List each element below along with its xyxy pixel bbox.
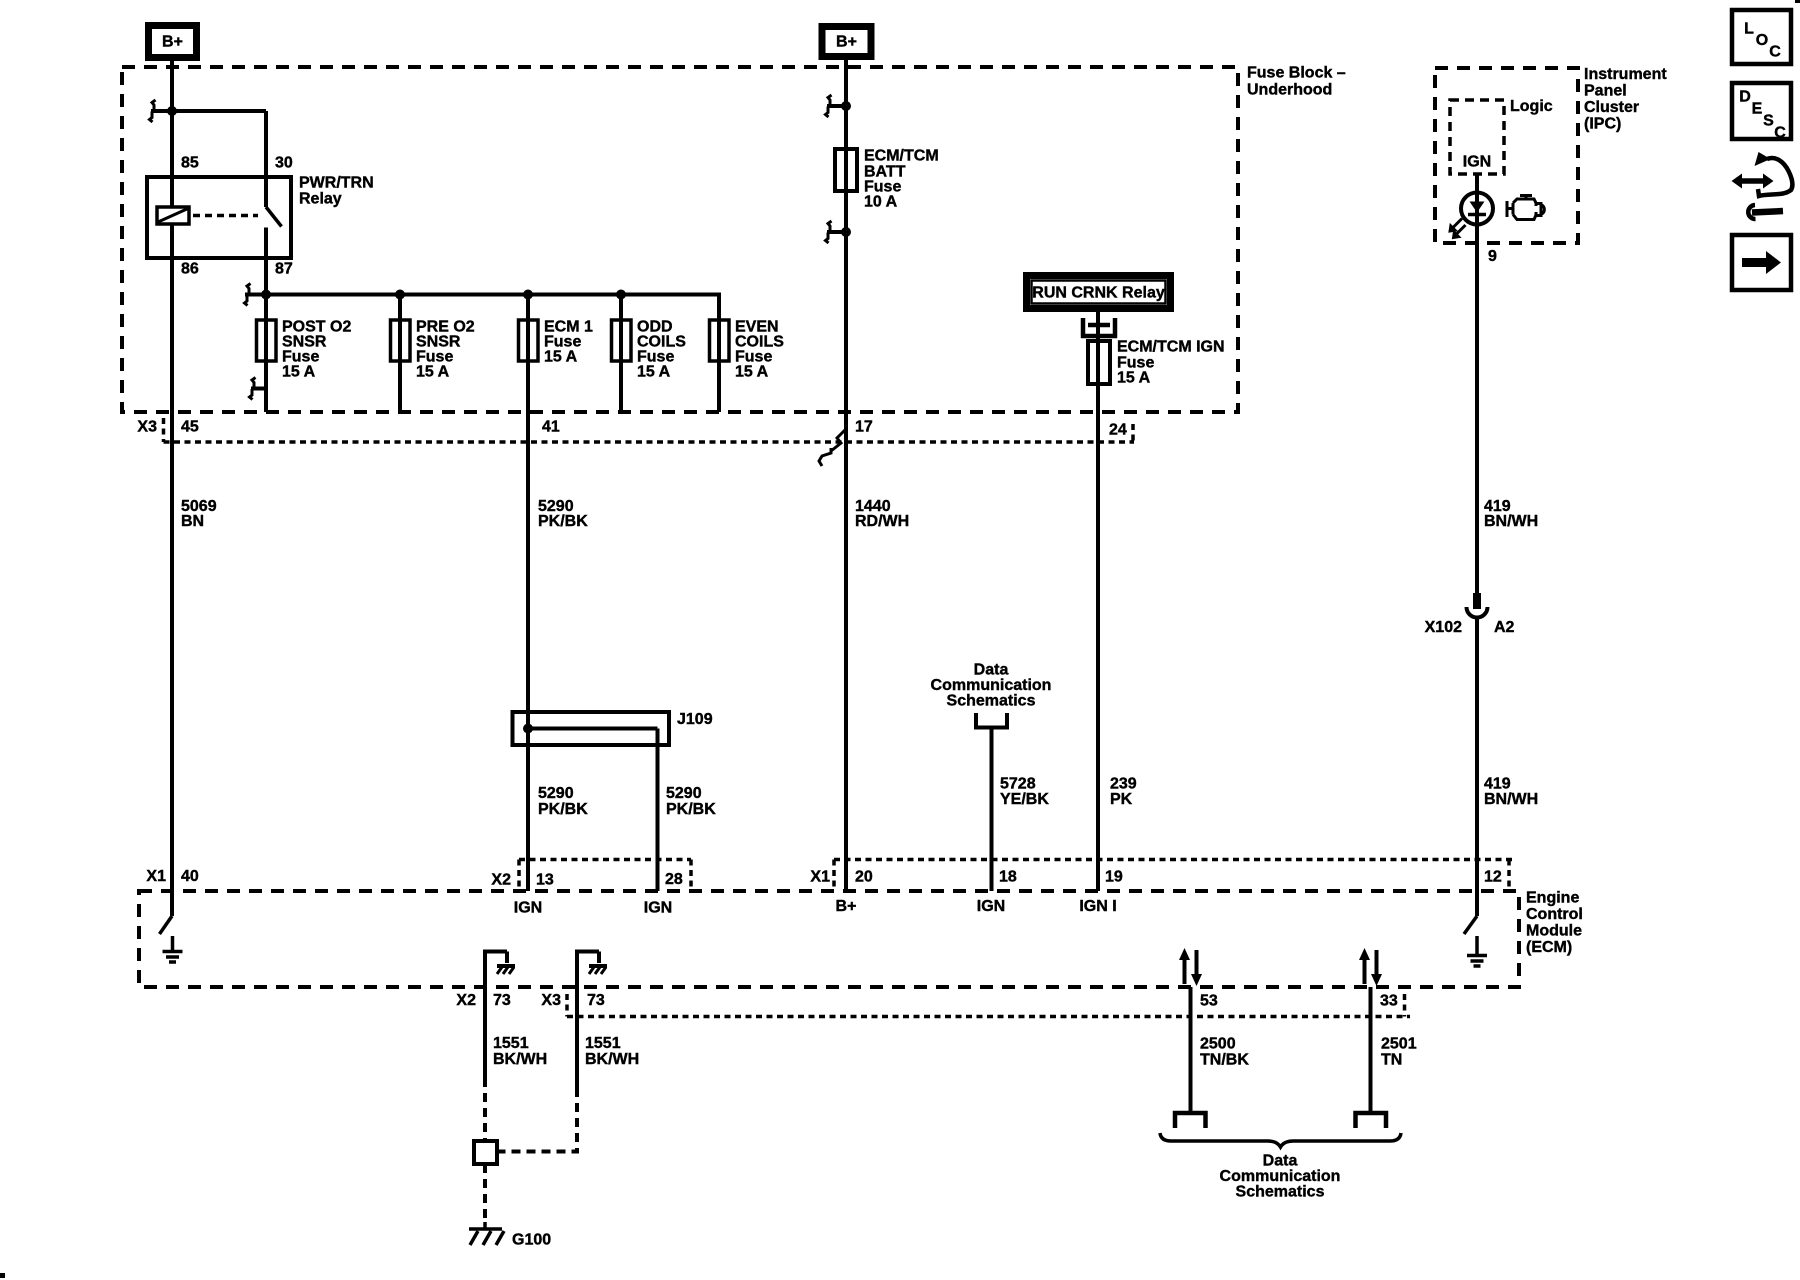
fuse holder cup symbol xyxy=(1081,318,1117,338)
svg-text:S: S xyxy=(1763,113,1774,130)
svg-text:IGN: IGN xyxy=(644,900,672,917)
svg-text:Control: Control xyxy=(1526,906,1583,923)
svg-text:IGN I: IGN I xyxy=(1079,898,1116,915)
svg-text:Schematics: Schematics xyxy=(1236,1184,1325,1201)
svg-text:45: 45 xyxy=(181,419,199,436)
svg-text:IGN: IGN xyxy=(514,900,542,917)
svg-text:BK/WH: BK/WH xyxy=(585,1051,639,1068)
svg-text:1551: 1551 xyxy=(493,1035,529,1052)
svg-text:C: C xyxy=(1769,44,1781,61)
icon box LOC xyxy=(1732,10,1791,64)
svg-text:G100: G100 xyxy=(512,1232,551,1249)
svg-text:24: 24 xyxy=(1109,422,1127,439)
wire logic to LED and down to X102 xyxy=(1475,174,1479,595)
svg-text:J109: J109 xyxy=(677,711,713,728)
fuse PRE O2 SNSR 15A xyxy=(391,320,411,361)
label Fuse Block - Underhood xyxy=(1247,65,1346,99)
PWR/TRN relay box xyxy=(147,177,291,258)
callout Data Communication Schematics (top) xyxy=(931,662,1052,710)
wire label 5728 YE/BK xyxy=(1000,776,1049,809)
Engine Control Module dashed box xyxy=(139,891,1519,987)
svg-text:D: D xyxy=(1739,89,1751,106)
svg-text:Panel: Panel xyxy=(1584,83,1627,100)
svg-text:Schematics: Schematics xyxy=(947,693,1036,710)
relay actuator dashed link xyxy=(193,214,258,218)
off-page terminator (2501) xyxy=(1356,1113,1387,1128)
junction node bus/ODD COILS xyxy=(616,290,626,300)
wire stub RUN CRNK relay to fuse holder xyxy=(1096,309,1100,891)
svg-text:53: 53 xyxy=(1200,993,1218,1010)
svg-text:L: L xyxy=(1744,21,1754,38)
wire label 1551 BK/WH (right) xyxy=(585,1035,639,1068)
wire dashed splice to G100 xyxy=(483,1164,487,1222)
wire label 2500 TN/BK xyxy=(1200,1036,1249,1069)
svg-text:Communication: Communication xyxy=(931,677,1052,694)
svg-text:X2: X2 xyxy=(491,872,511,889)
svg-text:15 A: 15 A xyxy=(735,364,769,381)
wire pin 30 down into relay xyxy=(264,111,268,207)
off-page terminator (2500) xyxy=(1175,1113,1206,1128)
label PRE O2 SNSR Fuse 15 A xyxy=(416,319,475,381)
in-line connector X102 pin A2 xyxy=(1467,593,1488,618)
svg-text:10 A: 10 A xyxy=(864,194,898,211)
Logic dashed box xyxy=(1450,100,1504,174)
fuse ODD COILS 15A xyxy=(612,320,632,361)
svg-text:15 A: 15 A xyxy=(1117,370,1151,387)
svg-text:PK/BK: PK/BK xyxy=(538,801,588,818)
svg-text:TN/BK: TN/BK xyxy=(1200,1052,1249,1069)
svg-text:12: 12 xyxy=(1484,869,1502,886)
svg-text:C: C xyxy=(1774,125,1786,142)
svg-text:41: 41 xyxy=(542,419,560,436)
svg-text:Engine: Engine xyxy=(1526,890,1579,907)
svg-text:ECM/TCM: ECM/TCM xyxy=(864,148,939,165)
fuse ECM/TCM BATT 10A xyxy=(835,149,857,191)
svg-text:9: 9 xyxy=(1488,248,1497,265)
fuse POST O2 SNSR 15A xyxy=(257,320,277,361)
fuse bus from relay pin 87 xyxy=(245,293,719,297)
svg-text:85: 85 xyxy=(181,155,199,172)
svg-text:33: 33 xyxy=(1380,993,1398,1010)
svg-text:419: 419 xyxy=(1484,776,1511,793)
ground symbol at pin 12 xyxy=(1467,956,1487,967)
svg-text:(ECM): (ECM) xyxy=(1526,939,1572,956)
svg-text:13: 13 xyxy=(536,872,554,889)
svg-text:86: 86 xyxy=(181,261,199,278)
fuse ECM/TCM IGN 15A xyxy=(1088,341,1110,384)
svg-text:Cluster: Cluster xyxy=(1584,99,1639,116)
svg-text:IGN: IGN xyxy=(1463,154,1491,171)
svg-text:TN: TN xyxy=(1381,1052,1402,1069)
wire bus to POST O2 fuse xyxy=(264,295,268,413)
svg-text:40: 40 xyxy=(181,868,199,885)
svg-text:RUN CRNK Relay: RUN CRNK Relay xyxy=(1032,285,1165,302)
junction node below BATT fuse xyxy=(841,227,851,237)
svg-text:5290: 5290 xyxy=(538,785,574,802)
RUN CRNK Relay label box xyxy=(1027,276,1171,309)
splice J109 box xyxy=(513,712,670,745)
svg-text:X102: X102 xyxy=(1425,619,1462,636)
svg-text:5728: 5728 xyxy=(1000,776,1036,793)
label ODD COILS Fuse 15 A xyxy=(637,319,686,381)
svg-text:O: O xyxy=(1756,32,1768,49)
ECM internal up-down arrows (pin 53) xyxy=(1179,948,1202,986)
ground symbol at pin 40 xyxy=(163,952,183,963)
svg-text:X2: X2 xyxy=(456,992,476,1009)
wire 2500 pin 53 xyxy=(1189,987,1193,1113)
wire 1551 left solid xyxy=(483,987,487,1078)
icon box go-to arrow xyxy=(1732,235,1791,290)
svg-text:BK/WH: BK/WH xyxy=(493,1051,547,1068)
svg-text:BN/WH: BN/WH xyxy=(1484,791,1538,808)
wire label 5290 PK/BK (upper) xyxy=(538,498,588,530)
svg-text:73: 73 xyxy=(493,992,511,1009)
connector row X1 (pins 20 18 19 12) xyxy=(834,860,1512,890)
label Instrument Panel Cluster (IPC) xyxy=(1584,66,1667,133)
clip tap above ECM/TCM BATT fuse xyxy=(827,104,846,108)
wire bus corner to EVEN COILS fuse xyxy=(717,293,721,413)
svg-text:15 A: 15 A xyxy=(282,364,316,381)
svg-text:Logic: Logic xyxy=(1510,98,1553,115)
svg-text:(IPC): (IPC) xyxy=(1584,116,1621,133)
svg-text:28: 28 xyxy=(665,871,683,888)
ECM internal ground clamp (X2-73) xyxy=(483,952,515,988)
svg-text:YE/BK: YE/BK xyxy=(1000,791,1049,808)
svg-text:PK/BK: PK/BK xyxy=(666,801,716,818)
svg-text:X3: X3 xyxy=(541,992,561,1009)
svg-text:PWR/TRN: PWR/TRN xyxy=(299,175,374,192)
fuse EVEN COILS 15A xyxy=(710,320,730,361)
icon box DESC xyxy=(1732,83,1791,142)
wire label 1440 RD/WH xyxy=(855,498,909,530)
svg-text:X1: X1 xyxy=(810,869,830,886)
wire bus to ECM 1 fuse xyxy=(526,295,530,892)
corner mark bottom left xyxy=(0,1273,5,1278)
svg-text:ECM/TCM IGN: ECM/TCM IGN xyxy=(1117,339,1225,356)
clip tap below BATT fuse xyxy=(827,230,846,234)
wire B+ center down xyxy=(844,56,848,891)
wire label 419 BN/WH (lower) xyxy=(1484,776,1538,809)
wire jumper at junction to pin 30 xyxy=(151,109,266,113)
callout bracket xyxy=(976,713,1007,728)
wire label 239 PK xyxy=(1110,776,1137,809)
ECM internal ground clamp (X3-73) xyxy=(575,952,607,988)
junction node xyxy=(167,106,177,116)
label ECM/TCM IGN Fuse 15 A xyxy=(1117,339,1225,387)
svg-text:18: 18 xyxy=(999,869,1017,886)
svg-text:2501: 2501 xyxy=(1381,1036,1417,1053)
svg-text:87: 87 xyxy=(275,261,293,278)
corner mark top right xyxy=(1795,0,1800,3)
wire label 2501 TN xyxy=(1381,1036,1417,1069)
junction node in J109 xyxy=(523,724,533,734)
ECM internal switch at pin 40 xyxy=(160,891,173,952)
wire 1551 right dashed to splice xyxy=(497,1088,577,1152)
wire label 5290 PK/BK (pin 13) xyxy=(538,785,588,818)
label POST O2 SNSR Fuse 15 A xyxy=(282,319,351,381)
wire bus to ODD COILS fuse xyxy=(619,295,623,413)
wire pin 87 lower contact down to bus xyxy=(264,228,268,295)
svg-text:Module: Module xyxy=(1526,923,1582,940)
clip tap below POST O2 fuse xyxy=(251,387,266,391)
Fuse Block - Underhood dashed box xyxy=(122,67,1238,412)
junction node bus/POST O2 xyxy=(261,290,271,300)
brace xyxy=(1160,1133,1401,1147)
wire 1551 right solid xyxy=(575,987,579,1088)
junction node above BATT fuse xyxy=(841,101,851,111)
wire 5728 from bracket to pin 18 xyxy=(990,728,994,892)
wire 1551 left dashed to splice xyxy=(483,1078,487,1141)
wire label 5290 PK/BK (pin 28) xyxy=(666,785,716,818)
svg-text:17: 17 xyxy=(855,419,873,436)
svg-text:Communication: Communication xyxy=(1220,1168,1341,1185)
engine icon xyxy=(1507,196,1544,220)
svg-text:20: 20 xyxy=(855,869,873,886)
svg-text:IGN: IGN xyxy=(977,898,1005,915)
ECM internal switch at pin 12 xyxy=(1464,891,1477,956)
junction node bus/ECM1 xyxy=(523,290,533,300)
svg-text:A2: A2 xyxy=(1494,619,1515,636)
svg-text:15 A: 15 A xyxy=(637,364,671,381)
label ECM 1 Fuse 15 A xyxy=(544,319,593,366)
wire B+ left down to relay pin 85 and coil xyxy=(170,58,174,207)
Instrument Panel Cluster dashed box xyxy=(1435,68,1578,243)
callout Data Communication Schematics (bottom) xyxy=(1220,1153,1341,1201)
wire branch in J109 to pin 28 xyxy=(528,727,658,731)
svg-text:Relay: Relay xyxy=(299,191,342,208)
wire label 419 BN/WH (upper) xyxy=(1484,498,1538,530)
label EVEN COILS Fuse 15 A xyxy=(735,319,784,381)
connector row X3 bottom (pins 73 53 33) xyxy=(567,994,1410,1017)
svg-text:PK: PK xyxy=(1110,791,1133,808)
svg-text:73: 73 xyxy=(587,992,605,1009)
svg-text:X1: X1 xyxy=(146,868,166,885)
svg-text:19: 19 xyxy=(1105,869,1123,886)
indicator LED symbol xyxy=(1450,193,1494,239)
svg-text:PK/BK: PK/BK xyxy=(538,513,588,530)
wire label 1551 BK/WH (left) xyxy=(493,1035,547,1068)
splice box xyxy=(474,1141,497,1164)
svg-text:E: E xyxy=(1752,101,1763,118)
svg-text:RD/WH: RD/WH xyxy=(855,513,909,530)
relay coil xyxy=(157,207,189,224)
svg-text:2500: 2500 xyxy=(1200,1036,1236,1053)
ECM internal up-down arrows (pin 33) xyxy=(1359,948,1382,986)
svg-text:Data: Data xyxy=(974,662,1009,679)
ground G100 chassis symbol xyxy=(469,1222,504,1245)
svg-text:B+: B+ xyxy=(836,898,857,915)
svg-text:15 A: 15 A xyxy=(544,349,578,366)
svg-text:Underhood: Underhood xyxy=(1247,82,1332,99)
wire bus to PRE O2 fuse xyxy=(398,295,402,413)
connector X3 row under fuse block xyxy=(164,418,1135,442)
junction node bus/PRE O2 xyxy=(395,290,405,300)
fuse ECM 1 15A xyxy=(519,320,539,361)
wire coil bottom pin 86 down xyxy=(170,224,174,891)
svg-text:15 A: 15 A xyxy=(416,364,450,381)
svg-text:BN/WH: BN/WH xyxy=(1484,513,1538,530)
svg-text:B+: B+ xyxy=(162,34,183,51)
svg-text:X3: X3 xyxy=(137,419,157,436)
label ECM/TCM BATT Fuse 10 A xyxy=(864,148,939,211)
relay switch blade xyxy=(266,207,282,227)
clip hook at left of bus xyxy=(245,284,251,306)
connector row X2 (pins 13 28) xyxy=(519,860,691,890)
wire label 5069 BN xyxy=(181,498,217,530)
svg-text:BN: BN xyxy=(181,513,204,530)
relay label PWR/TRN Relay xyxy=(299,175,374,208)
clip hook at left of junction xyxy=(150,100,156,122)
battery terminal B+ (left) xyxy=(149,26,197,58)
battery terminal B+ (center) xyxy=(822,27,871,57)
svg-text:5290: 5290 xyxy=(666,785,702,802)
svg-text:Fuse Block –: Fuse Block – xyxy=(1247,65,1346,82)
svg-text:Instrument: Instrument xyxy=(1584,66,1667,83)
icon schematic reference (arrows and wrench) xyxy=(1732,152,1793,219)
clip jog at pin 17 xyxy=(819,429,846,466)
svg-text:B+: B+ xyxy=(836,34,857,51)
svg-text:1551: 1551 xyxy=(585,1035,621,1052)
svg-text:30: 30 xyxy=(275,155,293,172)
wire 2501 pin 33 xyxy=(1369,987,1373,1113)
svg-text:239: 239 xyxy=(1110,776,1137,793)
svg-text:Data: Data xyxy=(1263,1153,1298,1170)
wire X102 down to ECM pin 12 xyxy=(1475,618,1479,891)
label Engine Control Module (ECM) xyxy=(1526,890,1583,957)
